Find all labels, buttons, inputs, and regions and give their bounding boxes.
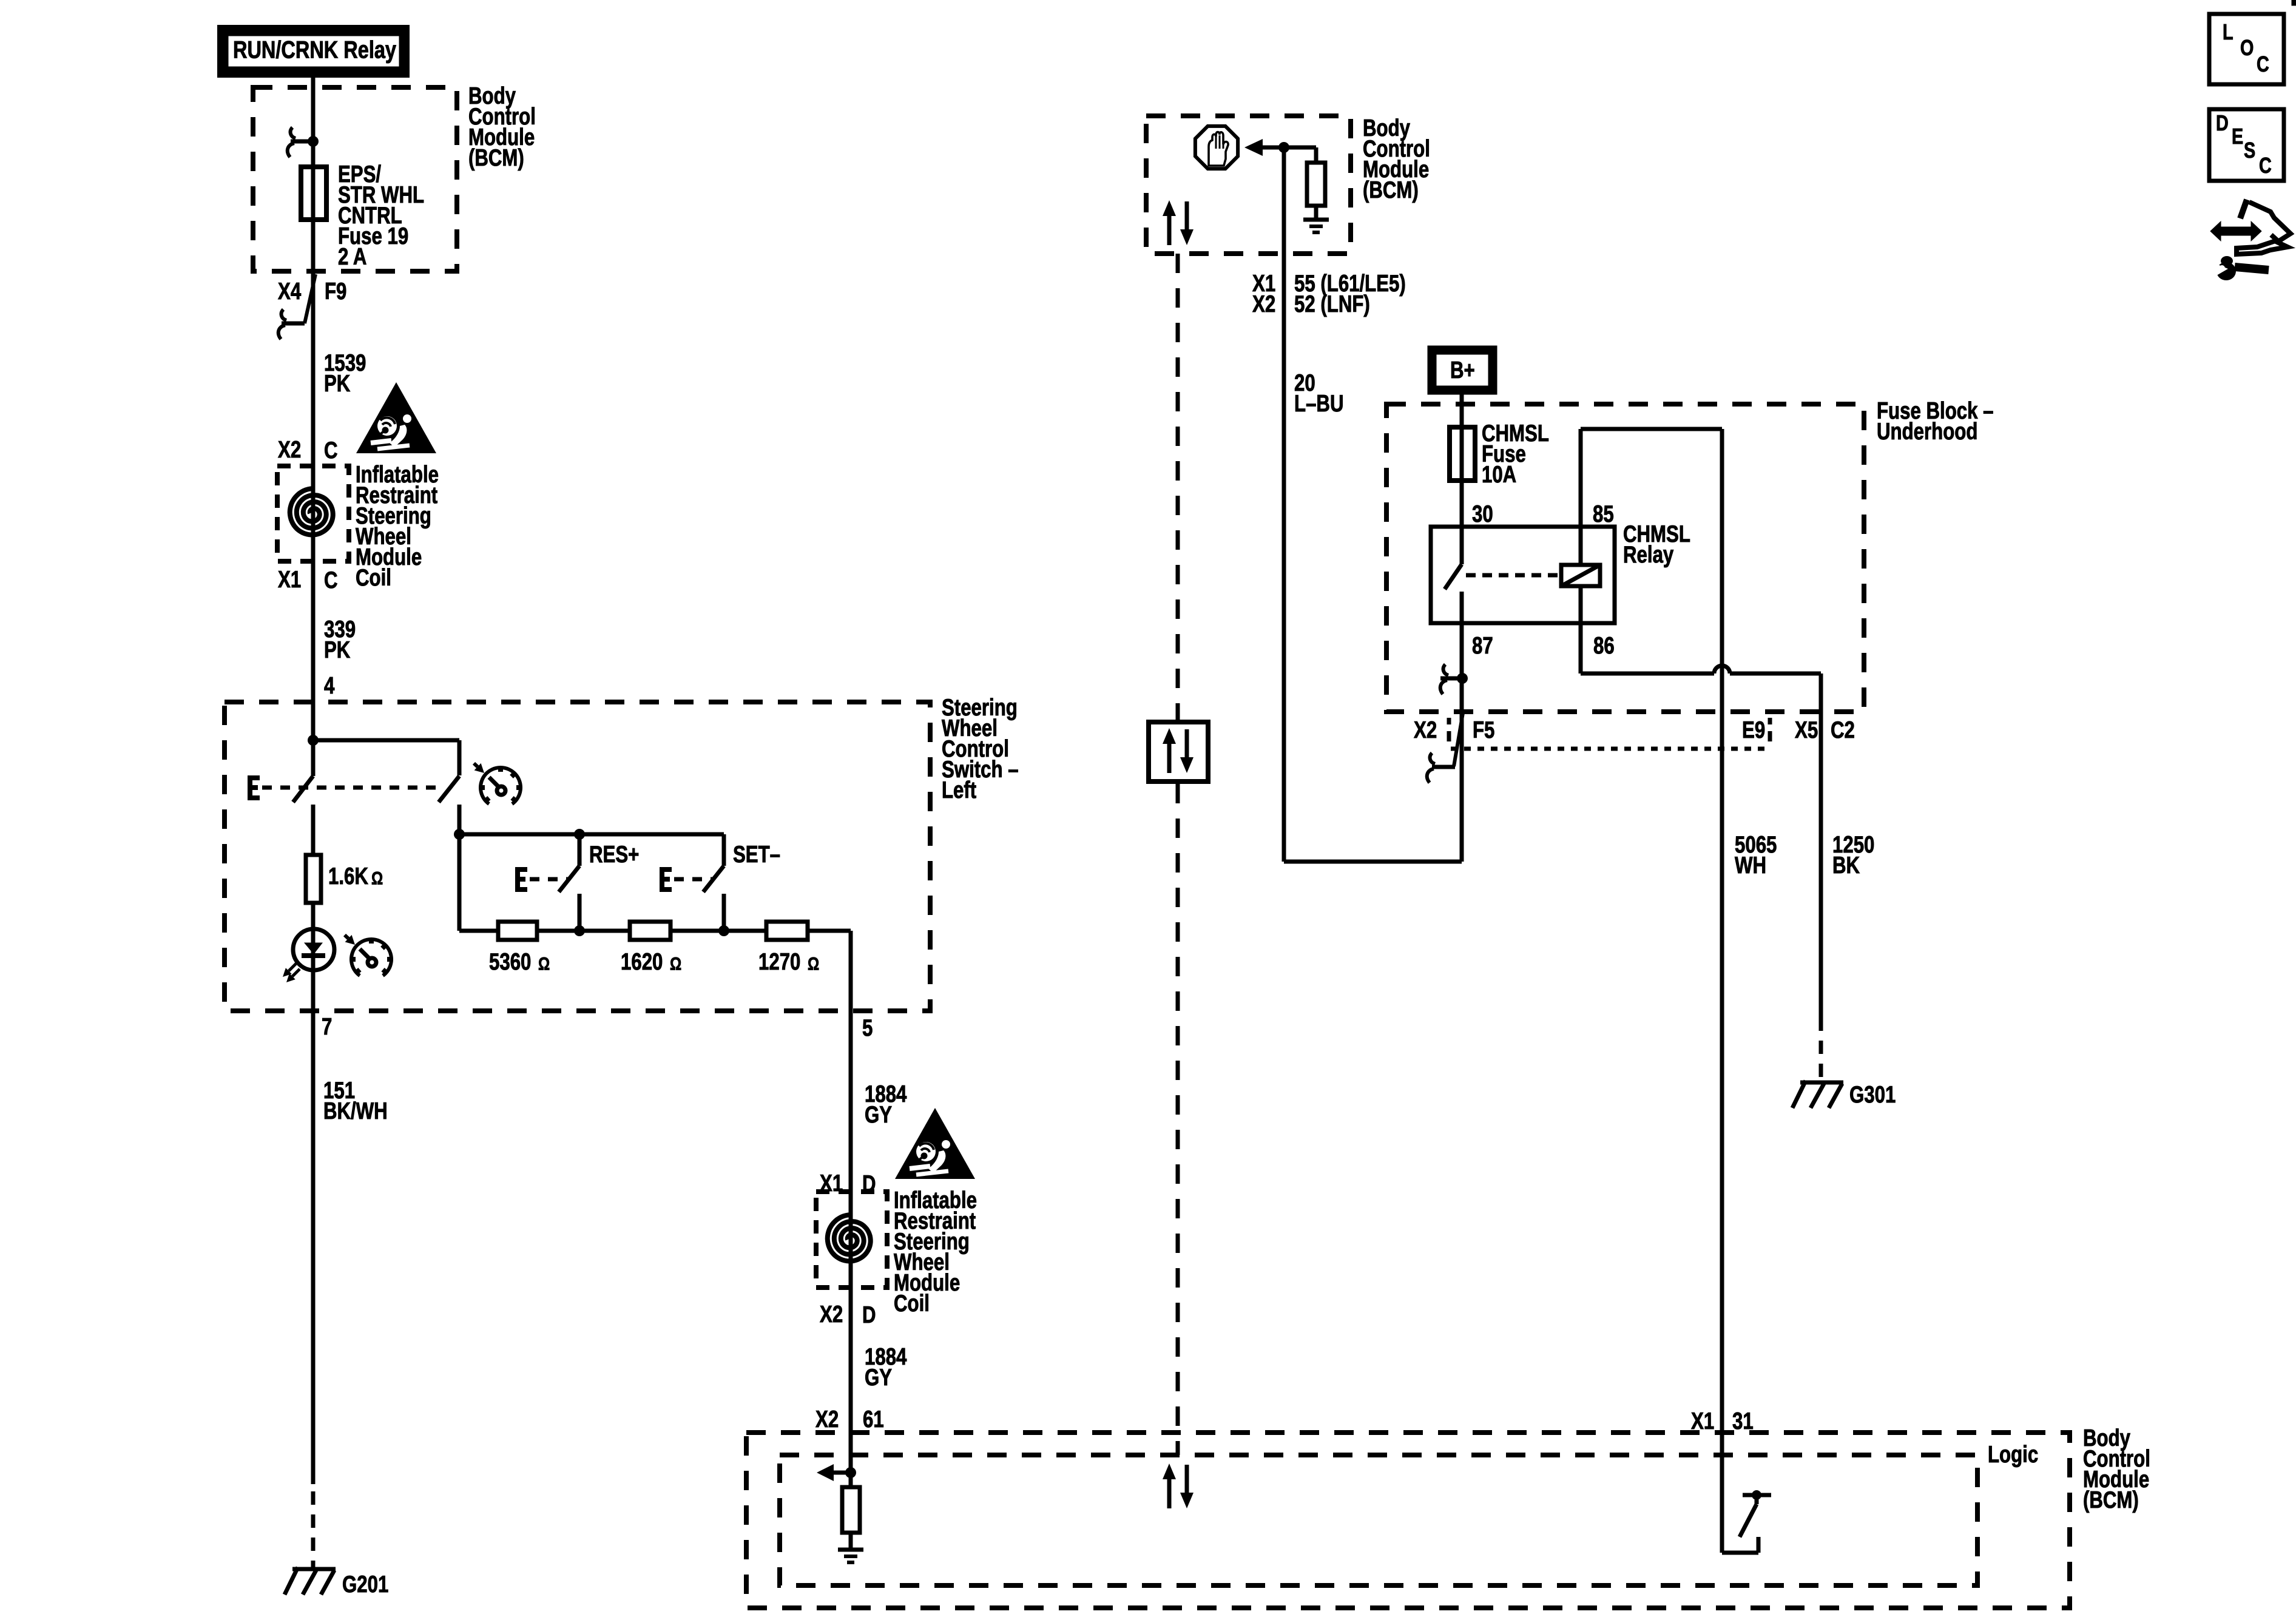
svg-text:F9: F9 xyxy=(325,279,346,305)
svg-text:Logic: Logic xyxy=(1988,1442,2038,1468)
connector labels X2 F5 xyxy=(1414,717,1494,743)
terminal clip and node inside BCM xyxy=(288,127,319,157)
svg-text:C: C xyxy=(324,437,338,464)
svg-text:GY: GY xyxy=(865,1365,892,1391)
svg-text:Coil: Coil xyxy=(356,565,391,591)
svg-text:PK: PK xyxy=(324,637,350,663)
connector labels X1 / C xyxy=(278,567,338,593)
in-line connector at X2/F5 xyxy=(1427,713,1463,783)
svg-text:61: 61 xyxy=(863,1406,884,1433)
wire fuse to relay pin 30 xyxy=(1460,481,1464,564)
terminal clip at relay 87 output xyxy=(1440,664,1468,694)
label: CHMSL Fuse 10A xyxy=(1482,420,1549,488)
relay actuation dashed link xyxy=(1466,573,1559,578)
connector boundary dotted line xyxy=(1451,747,1768,751)
wire 1539 PK xyxy=(311,274,316,488)
wire: top rail to right branch xyxy=(313,740,459,775)
relay pin labels 87 / 86 xyxy=(1472,633,1615,659)
connector labels X2 / 61 xyxy=(815,1406,884,1433)
wire 339 PK xyxy=(311,539,316,702)
off-page dashed line (lower) xyxy=(1176,784,1180,1455)
gauge icon next to LED xyxy=(351,939,391,976)
B+ power label box xyxy=(1432,350,1493,390)
svg-text:10A: 10A xyxy=(1482,462,1516,488)
pin 4 label xyxy=(324,673,335,699)
svg-text:RES+: RES+ xyxy=(589,842,639,868)
pin 5 label xyxy=(862,1015,873,1041)
boxed page connector arrows on dashed line xyxy=(1149,722,1208,781)
label 1884 GY (upper) xyxy=(865,1081,907,1128)
svg-text:1.6K: 1.6K xyxy=(328,863,368,890)
label 5360 ohm xyxy=(489,949,550,975)
label 5065 WH xyxy=(1735,832,1777,879)
wire B+ to CHMSL fuse xyxy=(1460,394,1464,427)
label: Body Control Module (BCM) bottom xyxy=(2083,1425,2150,1513)
svg-text:1270: 1270 xyxy=(758,949,800,975)
airbag caution triangle (upper) xyxy=(356,382,436,453)
svg-text:L: L xyxy=(2223,19,2234,44)
svg-text:Ω: Ω xyxy=(371,869,383,889)
svg-text:5: 5 xyxy=(862,1015,873,1041)
svg-text:Ω: Ω xyxy=(538,954,550,974)
RES+ switch with E actuator xyxy=(518,834,579,931)
wire 20 L-BU junction to F5 branch xyxy=(1284,712,1462,862)
label SET- xyxy=(733,842,780,868)
svg-text:7: 7 xyxy=(322,1014,332,1040)
svg-text:52 (LNF): 52 (LNF) xyxy=(1294,291,1370,317)
relay pin labels 30 / 85 xyxy=(1472,501,1614,527)
resistor 1270 ohm xyxy=(766,922,808,940)
wire 1884 GY upper xyxy=(849,1011,853,1215)
wire to pin 5 exit xyxy=(849,931,853,1011)
coil spiral (upper) xyxy=(290,488,333,539)
label: Body Control Module (BCM) top middle xyxy=(1363,115,1430,203)
svg-text:Relay: Relay xyxy=(1623,542,1674,568)
connector labels X1 / 31 xyxy=(1691,1408,1754,1434)
svg-text:C2: C2 xyxy=(1831,717,1855,743)
wire: RES/SET top rail xyxy=(454,829,724,931)
label: CHMSL Relay xyxy=(1623,521,1690,568)
label G201 xyxy=(342,1571,388,1598)
resistor 1620 ohm xyxy=(630,922,670,940)
svg-text:X2: X2 xyxy=(1252,291,1275,317)
svg-text:C: C xyxy=(324,567,338,593)
svg-text:S: S xyxy=(2244,138,2255,163)
wire 151 BK/WH to ground xyxy=(311,1011,316,1569)
connector labels X1 / D xyxy=(820,1170,876,1197)
svg-text:85: 85 xyxy=(1593,501,1614,527)
label 1270 ohm xyxy=(758,949,819,975)
label RES+ xyxy=(589,842,639,868)
BCM logic input node with arrow xyxy=(817,1464,856,1481)
label: 1539 PK xyxy=(324,350,366,397)
BCM dashed box (top middle) xyxy=(1146,116,1351,254)
svg-text:B+: B+ xyxy=(1450,357,1475,383)
svg-text:(BCM): (BCM) xyxy=(1363,177,1419,203)
off-page dashed line (upper) xyxy=(1176,254,1180,720)
svg-text:C: C xyxy=(2259,153,2272,178)
svg-text:BK/WH: BK/WH xyxy=(323,1098,388,1124)
LED emission arrows xyxy=(283,964,300,982)
coil feed wire to E9 terminal xyxy=(1581,429,1722,1553)
label: Logic xyxy=(1988,1442,2038,1468)
arrow into stop-hand from node xyxy=(1244,139,1289,156)
svg-text:G301: G301 xyxy=(1849,1082,1896,1108)
ground G301 xyxy=(1792,1081,1843,1108)
coil spiral (lower) xyxy=(828,1215,871,1265)
cruise switch right pole blade xyxy=(439,776,459,834)
stop-hand octagon symbol xyxy=(1195,126,1238,169)
label 1250 BK xyxy=(1832,832,1874,879)
label: 20 L-BU xyxy=(1294,370,1344,417)
page connector arrows in logic box xyxy=(1163,1463,1194,1508)
data exchange / tool icon xyxy=(2210,200,2291,280)
svg-text:X2: X2 xyxy=(278,437,301,463)
svg-text:X5: X5 xyxy=(1795,717,1818,743)
svg-text:GY: GY xyxy=(865,1102,892,1128)
relay switch blade xyxy=(1445,564,1462,712)
label 1884 GY (lower) xyxy=(865,1344,907,1391)
svg-text:2 A: 2 A xyxy=(338,244,366,270)
svg-text:86: 86 xyxy=(1593,633,1615,659)
svg-text:PK: PK xyxy=(324,371,350,397)
connector labels X2 / D xyxy=(820,1301,876,1328)
signal ground (BCM top) xyxy=(1303,220,1329,232)
svg-text:Ω: Ω xyxy=(670,954,681,974)
signal ground (logic left) xyxy=(838,1550,863,1562)
svg-text:(BCM): (BCM) xyxy=(2083,1487,2139,1513)
svg-text:Left: Left xyxy=(942,777,976,803)
svg-text:Underhood: Underhood xyxy=(1877,419,1977,445)
label: Steering Wheel Control Switch - Left xyxy=(942,695,1019,803)
BCM internal pull resistor (logic left) xyxy=(842,1473,860,1548)
svg-text:4: 4 xyxy=(324,673,335,699)
label: Inflatable Restraint Steering Wheel Module Coil (lower) xyxy=(894,1187,977,1317)
CHMSL fuse 10A xyxy=(1450,427,1475,481)
cruise on/off switch (left pole) with E actuator xyxy=(250,776,441,802)
svg-text:E9: E9 xyxy=(1742,717,1765,743)
connector labels E9 X5 C2 xyxy=(1742,717,1855,743)
page connector arrows inside BCM xyxy=(1163,200,1194,245)
svg-text:D: D xyxy=(2216,110,2229,135)
svg-text:O: O xyxy=(2240,35,2254,60)
dashed wire to G301 xyxy=(1819,1018,1823,1082)
label: Body Control Module (BCM) top-left xyxy=(468,83,536,171)
label: Inflatable Restraint Steering Wheel Module Coil (upper) xyxy=(356,462,439,591)
Logic dashed box xyxy=(780,1455,1977,1585)
CHMSL relay box xyxy=(1431,527,1615,623)
svg-text:RUN/CRNK Relay: RUN/CRNK Relay xyxy=(233,37,397,64)
svg-text:Coil: Coil xyxy=(894,1291,930,1317)
label: 339 PK xyxy=(324,616,356,663)
svg-text:X1: X1 xyxy=(278,567,301,593)
label: Fuse Block - Underhood xyxy=(1877,398,1994,445)
wire: fuse to connector X4/F9 xyxy=(311,220,316,274)
airbag caution triangle (lower) xyxy=(895,1108,975,1179)
page corner mark xyxy=(2292,0,2296,5)
wire 1884 GY lower xyxy=(849,1265,853,1473)
BCM logic switch for CHMSL output xyxy=(1722,1490,1771,1553)
connector labels X1 55 (L61/LE5) / X2 52 (LNF) xyxy=(1252,271,1406,317)
svg-text:D: D xyxy=(862,1302,876,1328)
svg-text:5360: 5360 xyxy=(489,949,531,975)
svg-text:G201: G201 xyxy=(342,1571,388,1598)
connector labels X2 / C xyxy=(278,437,338,464)
svg-text:SET–: SET– xyxy=(733,842,780,868)
resistor 1.6K ohm in LED branch xyxy=(306,805,321,903)
resistor 5360 ohm xyxy=(498,922,537,940)
svg-text:F5: F5 xyxy=(1473,717,1494,743)
pin 7 label xyxy=(322,1014,332,1040)
label: EPS/STR WHL CNTRL Fuse 19 2A xyxy=(338,161,424,270)
svg-text:C: C xyxy=(2257,52,2269,76)
svg-text:87: 87 xyxy=(1472,633,1493,659)
inflatable restraint steering wheel module coil (lower) dashed box xyxy=(816,1192,887,1288)
fuse EPS/STR WHL CNTRL Fuse 19 2A xyxy=(301,167,326,220)
svg-text:(BCM): (BCM) xyxy=(468,145,524,171)
Body Control Module bottom dashed box xyxy=(746,1433,2070,1608)
svg-text:E: E xyxy=(2232,124,2243,149)
BCM internal resistor (top) xyxy=(1284,147,1325,218)
wire into switch and node xyxy=(308,702,319,776)
svg-text:X2: X2 xyxy=(1414,717,1437,743)
Fuse Block - Underhood dashed box xyxy=(1386,404,1864,712)
LOC reference box xyxy=(2209,14,2284,84)
bottom rail with junctions xyxy=(459,925,851,936)
Steering Wheel Control Switch - Left dashed box xyxy=(225,702,930,1011)
svg-text:1620: 1620 xyxy=(621,949,663,975)
svg-text:L–BU: L–BU xyxy=(1294,391,1344,417)
SET- switch with E actuator xyxy=(662,834,724,931)
svg-text:Ω: Ω xyxy=(808,954,819,974)
ground G201 xyxy=(285,1567,336,1595)
svg-text:BK: BK xyxy=(1832,852,1860,879)
label: 151 BK/WH xyxy=(323,1078,388,1124)
wire from BCM pin 55/52 (20 L-BU) xyxy=(1282,147,1286,862)
label 1620 ohm xyxy=(621,949,681,975)
svg-text:WH: WH xyxy=(1735,852,1766,879)
BCM dashed box (top left) xyxy=(253,87,457,271)
label 1.6K ohm xyxy=(328,863,383,890)
relay coil xyxy=(1561,429,1600,673)
wire 86 to C2 with crossover hop xyxy=(1581,666,1821,1018)
label G301 xyxy=(1849,1082,1896,1108)
svg-text:X2: X2 xyxy=(820,1301,843,1328)
gauge icon (cruise) right of switch xyxy=(481,768,521,804)
LED indicator xyxy=(293,903,334,1011)
svg-text:X4: X4 xyxy=(278,279,301,305)
power label box: RUN/CRNK Relay xyxy=(222,30,405,73)
in-line connector X4/F9 xyxy=(278,274,346,339)
wire: RUN/CRNK Relay to EPS fuse (x=516) xyxy=(311,78,316,167)
inflatable restraint steering wheel module coil (upper) dashed box xyxy=(277,466,349,561)
svg-text:30: 30 xyxy=(1472,501,1493,527)
DESC reference box xyxy=(2209,109,2284,181)
svg-text:X2: X2 xyxy=(815,1406,839,1433)
